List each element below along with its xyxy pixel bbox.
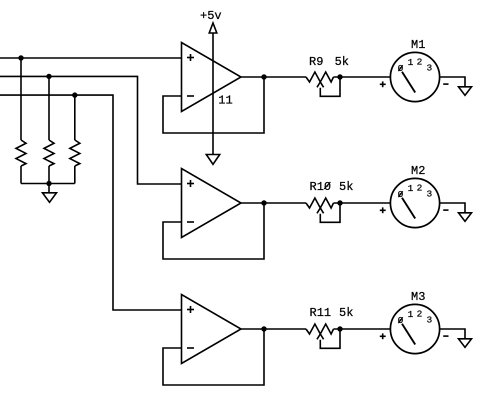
- meter M1 minus terminal label: [443, 83, 448, 85]
- wire net IN2 horizontal: [0, 76, 182, 184]
- svg-text:1: 1: [408, 57, 414, 68]
- op-amp U2 plus sign: [187, 183, 194, 185]
- ground (M2 return): [459, 213, 472, 222]
- wire IN1 drop to R1: [20, 58, 22, 140]
- ground (resistor network): [43, 193, 57, 203]
- wire U3 output: [241, 328, 306, 330]
- svg-text:M2: M2: [411, 164, 425, 178]
- meter M3 needle: [402, 324, 415, 345]
- wire R9 to meter M1: [334, 76, 391, 78]
- resistor R2: [44, 140, 54, 166]
- meter M2 body: [390, 178, 439, 227]
- wire U1 feedback loop: [163, 77, 264, 133]
- node IN1 junction: [18, 55, 23, 60]
- meter M3 minus terminal label: [443, 335, 448, 337]
- wire R2 bottom lead: [48, 166, 50, 184]
- wire IN3 drop to R3: [74, 95, 76, 140]
- node U2 output junction: [261, 200, 266, 205]
- wire net IN1 horizontal: [0, 57, 182, 59]
- meter M3 plus terminal label: [380, 335, 386, 337]
- wire R10 to meter M2: [334, 202, 391, 204]
- svg-text:R9: R9: [309, 55, 323, 69]
- op-amp U3 plus sign: [187, 309, 194, 311]
- resistor R10 wiper arrow: [317, 208, 324, 213]
- wire U2 output: [241, 202, 306, 204]
- svg-text:2: 2: [417, 308, 423, 319]
- node U1 output junction: [261, 74, 266, 79]
- wire net IN3 horizontal: [0, 95, 182, 310]
- wire R1 bottom lead: [20, 166, 22, 184]
- resistor R11 body: [306, 324, 333, 334]
- resistor R9 body: [306, 72, 333, 82]
- wire M2 to ground: [440, 203, 465, 213]
- resistor R11 wiper arrow: [317, 334, 324, 339]
- wire V+ supply line: [212, 33, 214, 155]
- svg-text:3: 3: [427, 188, 433, 199]
- svg-text:11: 11: [218, 94, 232, 108]
- meter M1 needle: [402, 72, 415, 93]
- svg-text:5k: 5k: [339, 180, 353, 194]
- wire U3 feedback loop: [163, 329, 264, 385]
- meter M2 needle: [402, 198, 415, 219]
- meter M2 minus terminal label: [443, 209, 448, 211]
- svg-text:2: 2: [417, 182, 423, 193]
- svg-text:+5v: +5v: [200, 9, 222, 23]
- resistor R9 wiper arrow: [317, 82, 324, 87]
- wire R9 wiper loop: [320, 77, 340, 96]
- ground (op-amp supply pin): [206, 155, 219, 165]
- wire R11 wiper loop: [320, 329, 340, 348]
- op-amp U1 plus sign: [187, 57, 194, 59]
- meter M2 plus terminal label: [380, 209, 386, 211]
- svg-text:M3: M3: [411, 290, 425, 304]
- ground (M1 return): [459, 87, 472, 96]
- svg-text:5k: 5k: [339, 306, 353, 320]
- op-amp U3: [182, 295, 242, 364]
- wire IN2 drop to R2: [48, 76, 50, 140]
- node R11 wiper junction: [337, 326, 342, 331]
- svg-text:1: 1: [408, 183, 414, 194]
- resistor R3: [70, 140, 80, 166]
- wire R11 to meter M3: [334, 328, 391, 330]
- resistor R10 body: [306, 198, 333, 208]
- svg-text:2: 2: [417, 56, 423, 67]
- wire U1 output: [241, 76, 306, 78]
- op-amp U2 minus sign: [187, 221, 194, 223]
- node R9 wiper junction: [337, 74, 342, 79]
- wire R10 wiper loop: [320, 203, 340, 222]
- op-amp U1 minus sign: [187, 95, 194, 97]
- wire M1 to ground: [440, 77, 465, 87]
- svg-text:3: 3: [427, 62, 433, 73]
- op-amp U1: [182, 43, 242, 112]
- meter M1 plus terminal label: [380, 83, 386, 85]
- wire ground stub: [48, 184, 50, 193]
- node IN2 junction: [46, 74, 51, 79]
- wire U2 feedback loop: [163, 203, 264, 259]
- svg-text:R11: R11: [310, 306, 332, 320]
- power arrow symbol: [209, 23, 217, 33]
- meter M1 body: [390, 52, 439, 101]
- node IN3 junction: [72, 92, 77, 97]
- wire M3 to ground: [440, 329, 465, 339]
- svg-text:R10: R10: [310, 180, 332, 194]
- op-amp U3 minus sign: [187, 347, 194, 349]
- op-amp U2: [182, 169, 242, 238]
- svg-text:M1: M1: [411, 38, 425, 52]
- node ground rail junction: [46, 181, 51, 186]
- wire R3 bottom lead: [74, 166, 76, 184]
- svg-text:3: 3: [427, 314, 433, 325]
- wire ground rail: [21, 183, 75, 185]
- ground (M3 return): [459, 339, 472, 348]
- node R10 wiper junction: [337, 200, 342, 205]
- resistor R1: [16, 140, 26, 166]
- svg-text:5k: 5k: [335, 55, 349, 69]
- svg-text:1: 1: [408, 309, 414, 320]
- meter M3 body: [390, 304, 439, 353]
- node U3 output junction: [261, 326, 266, 331]
